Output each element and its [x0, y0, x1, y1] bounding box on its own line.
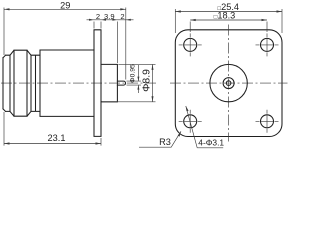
- svg-text:23.1: 23.1: [48, 133, 66, 143]
- front view horizontal centerline: [170, 82, 288, 84]
- svg-text:4-Φ3.1: 4-Φ3.1: [198, 137, 224, 147]
- insulator circle: [223, 78, 234, 89]
- dimension 23.1: [4, 112, 101, 146]
- mounting hole top-left: [184, 38, 197, 51]
- dimension square 25.4: [175, 9, 282, 33]
- dimension 29: [4, 8, 126, 56]
- svg-text:Φ0.95: Φ0.95: [129, 64, 136, 83]
- neck between nut and body: [31, 55, 40, 111]
- center socket circle: [226, 81, 231, 86]
- rear boss cylinder: [101, 64, 117, 101]
- front lip of coupling nut: [3, 55, 10, 111]
- svg-text:□18.3: □18.3: [214, 11, 236, 21]
- svg-text:R3: R3: [159, 137, 171, 147]
- mounting hole top-right: [261, 38, 274, 51]
- leader R3 (corner radius): [139, 131, 181, 147]
- leader 4-Phi3.1 (mounting holes): [186, 106, 197, 148]
- mounting hole bottom-left: [184, 115, 197, 128]
- coupling nut with chamfered corners: [10, 50, 31, 116]
- dimension Phi 0.95 (pin): [127, 65, 142, 93]
- dimension square 18.3: [190, 20, 267, 32]
- dimension Phi 8.9 (boss): [102, 64, 156, 101]
- engineering drawing: flange-mount RF connector, side view + front flange view: [0, 0, 288, 150]
- svg-text:2: 2: [120, 12, 124, 21]
- flange plate with rounded corners: [175, 30, 282, 137]
- side view centerline: [1, 82, 157, 84]
- front view vertical centerline: [228, 25, 230, 142]
- svg-text:29: 29: [60, 1, 70, 11]
- flange (edge-on): [94, 30, 101, 137]
- svg-text:2: 2: [96, 12, 100, 21]
- svg-text:Φ8.9: Φ8.9: [142, 69, 153, 92]
- main body cylinder: [40, 50, 94, 116]
- contact pin: [117, 81, 125, 85]
- dimension chain 2 / 3.9 / 2: [87, 8, 134, 80]
- svg-text:3.9: 3.9: [104, 12, 115, 21]
- central boss circle: [210, 64, 247, 101]
- mounting hole bottom-right: [261, 115, 274, 128]
